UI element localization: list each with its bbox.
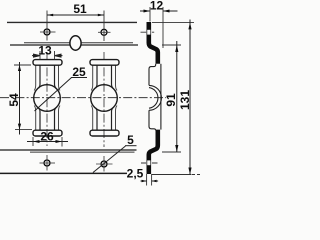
top hole right: [101, 29, 107, 35]
label 25 underline: [71, 77, 87, 79]
dimension 54 arrows: [18, 65, 21, 130]
label 5 underline: [125, 145, 137, 147]
dimension 131 ext top: [152, 21, 194, 23]
dimension 12 ext lines: [149, 7, 151, 22]
top hole right centermark vertical / ext line 51: [103, 11, 105, 42]
lower bend line 1: [0, 149, 137, 151]
bottom hole right centermark vertical: [103, 156, 105, 172]
dimension 2,5 ext lines: [147, 174, 152, 186]
side profile bulge inner arc: [149, 88, 158, 109]
left spool emboss outer sides: [34, 65, 60, 130]
side profile middle-left thin outline: [149, 64, 156, 131]
oval slot at top center: [70, 36, 81, 50]
dimension 91 line: [176, 41, 178, 152]
svg-text:26: 26: [40, 129, 54, 143]
dimension 131 ext bottom: [152, 174, 192, 176]
side profile lower hole gap: [147, 160, 150, 165]
dimension 26 arrows: [33, 140, 62, 143]
dimension 13 ext ticks: [39, 51, 41, 59]
dimension 51 line: [47, 14, 104, 16]
dimension 2,5 line segments: [141, 180, 159, 182]
side profile upper hole gap: [147, 30, 150, 35]
side profile upper thick section: [149, 22, 158, 64]
svg-text:54: 54: [7, 93, 21, 107]
left spool top cap: [33, 60, 62, 66]
top hole left centermark vertical / ext line 51: [46, 11, 48, 41]
right spool bottom cap: [90, 130, 119, 136]
label 5 leader: [93, 146, 126, 173]
right spool neck inner lines: [96, 65, 113, 130]
dimension 13 arrows and line: [32, 54, 63, 57]
left spool middle circle: [34, 85, 61, 112]
dimension 2,5 arrows: [142, 180, 157, 183]
svg-text:13: 13: [38, 43, 52, 57]
dimension 91 ext top: [162, 44, 181, 46]
svg-text:51: 51: [73, 2, 87, 16]
side profile right edge thin line: [160, 64, 162, 130]
svg-text:91: 91: [164, 93, 178, 107]
right spool emboss outer sides: [91, 65, 117, 130]
upper bend line 2: [10, 44, 138, 46]
dimension 12 arrows: [144, 10, 170, 13]
dimension 26 line: [27, 141, 68, 143]
dimension 91 ext bottom: [162, 151, 181, 153]
top hole right centermark horizontal: [98, 31, 111, 33]
slot centerline right: [103, 52, 105, 147]
svg-text:2,5: 2,5: [127, 167, 144, 181]
right spool top cap: [90, 60, 119, 66]
side profile upper hole centerline: [141, 31, 155, 33]
svg-text:131: 131: [178, 90, 192, 110]
dimension 51 arrow right: [98, 14, 104, 17]
dimension 131 arrows: [188, 22, 191, 174]
bottom edge line of plate: [0, 172, 127, 174]
side profile lower hole centerline: [141, 162, 158, 164]
left spool neck inner lines: [39, 65, 56, 130]
horizontal centerline: [0, 97, 166, 99]
lower bend line 2: [30, 151, 135, 153]
left spool bottom cap: [33, 130, 62, 136]
right spool middle circle: [91, 85, 118, 112]
upper bend line 1: [24, 42, 133, 44]
bottom hole right: [101, 161, 107, 167]
side profile bulge outer arc: [149, 85, 161, 110]
top hole left: [44, 29, 50, 35]
svg-text:5: 5: [127, 133, 134, 147]
label 25 leader: [35, 78, 72, 112]
top edge line of plate (front view): [7, 21, 137, 23]
dimension 51 arrow left: [47, 14, 53, 17]
dimension 54 ext top: [14, 64, 31, 66]
side profile lower thick section: [149, 130, 158, 174]
top hole left centermark horizontal: [40, 31, 56, 33]
dimension 91 arrows: [175, 45, 178, 152]
bottom hole left centermark vertical: [46, 155, 48, 171]
bottom hole left centermark horizontal: [40, 162, 56, 164]
bottom hole left: [44, 160, 50, 166]
dimension 12 line segments: [140, 10, 178, 12]
dimension 54 line: [19, 62, 21, 135]
dimension 131 line: [189, 20, 191, 175]
svg-text:12: 12: [150, 0, 164, 13]
dimension 26 ext ticks: [32, 137, 34, 146]
dimension 131 ext bottom dashes: [192, 174, 200, 176]
bottom hole right centermark horizontal: [96, 163, 113, 165]
slot centerline left: [46, 52, 48, 146]
dimension 54 ext bottom: [15, 129, 32, 131]
